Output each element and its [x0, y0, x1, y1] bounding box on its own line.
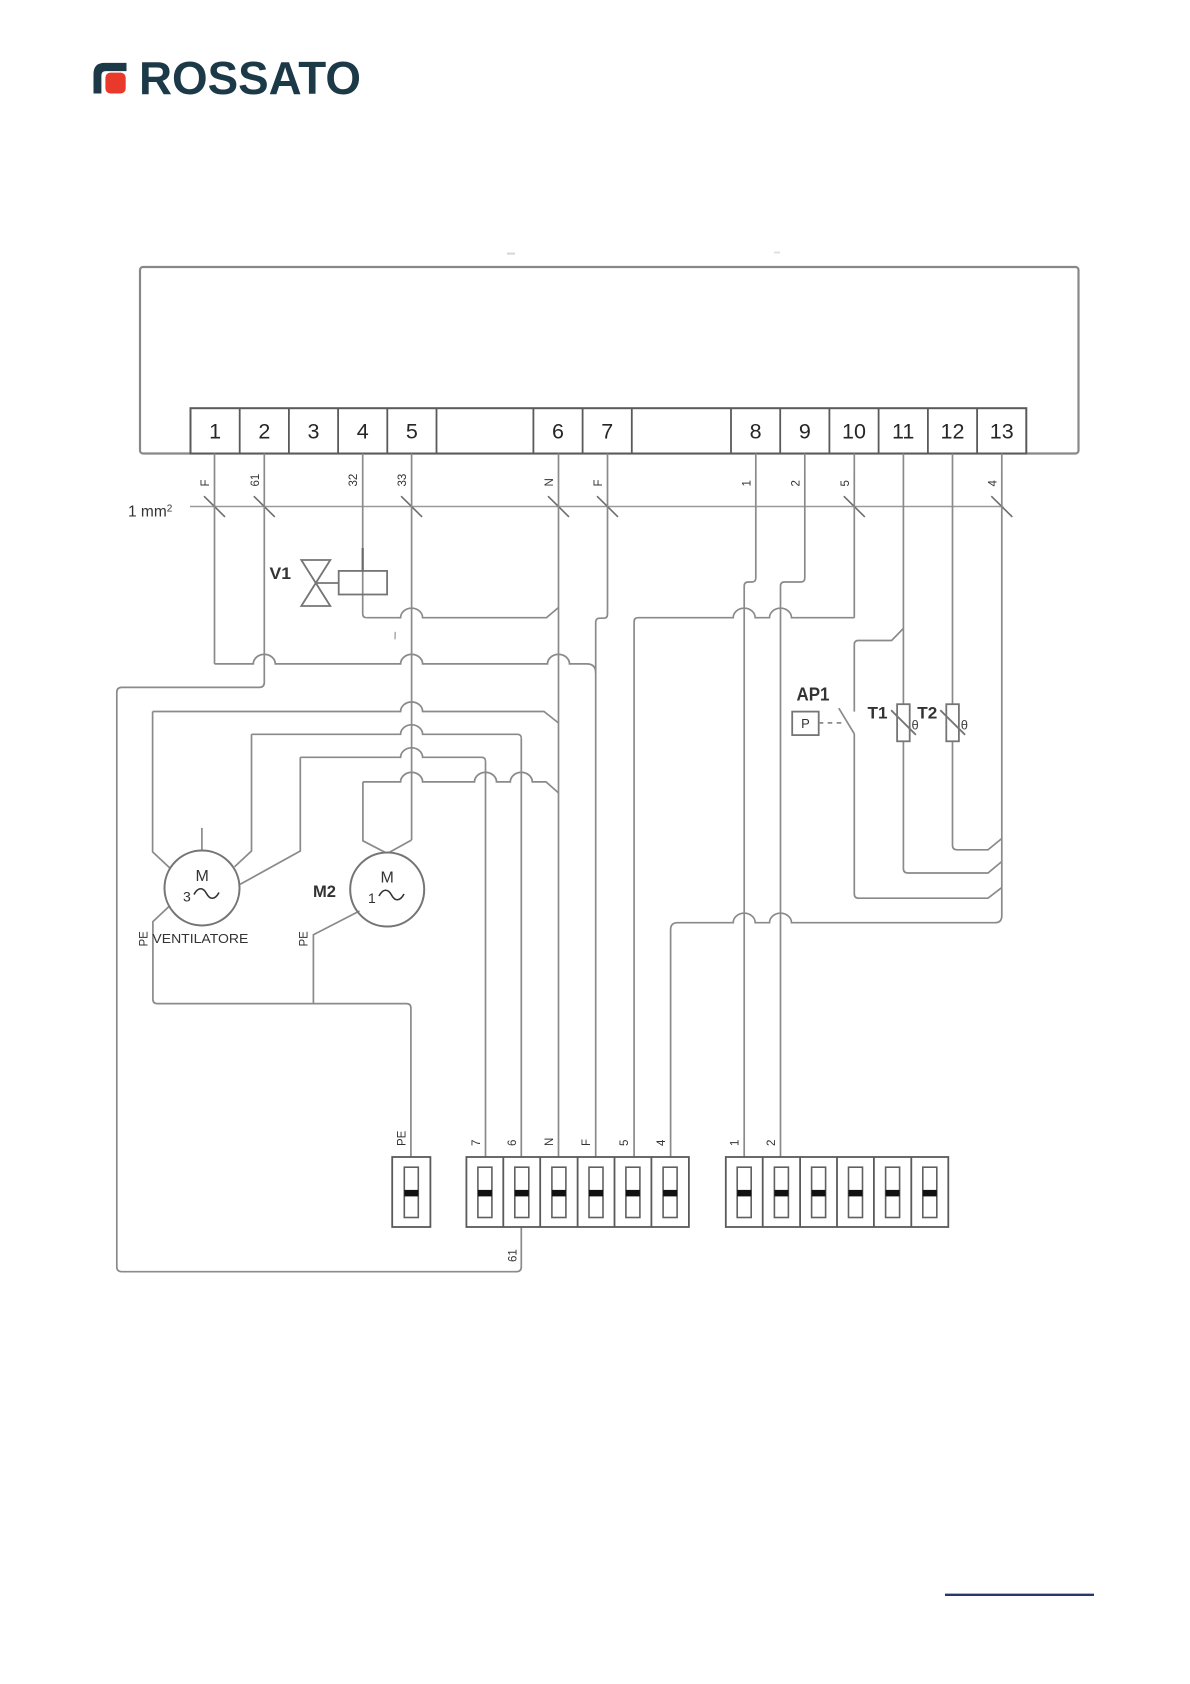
svg-text:3: 3 [308, 420, 320, 444]
svg-text:AP1: AP1 [797, 684, 830, 705]
svg-text:2: 2 [766, 1140, 778, 1146]
svg-text:8: 8 [750, 420, 762, 444]
svg-text:PE: PE [139, 931, 151, 947]
svg-text:F: F [200, 479, 212, 486]
svg-text:5: 5 [840, 480, 852, 486]
svg-text:1: 1 [368, 890, 376, 906]
svg-text:F: F [593, 479, 605, 486]
svg-text:4: 4 [357, 420, 369, 444]
svg-text:ROSSATO: ROSSATO [139, 52, 361, 104]
svg-text:9: 9 [799, 420, 811, 444]
svg-text:5: 5 [619, 1140, 631, 1146]
svg-text:11: 11 [892, 420, 914, 444]
svg-text:M: M [381, 870, 394, 887]
svg-text:PE: PE [396, 1130, 408, 1146]
svg-text:M: M [196, 868, 209, 885]
svg-text:7: 7 [601, 420, 613, 444]
svg-text:12: 12 [941, 420, 965, 444]
svg-text:T2: T2 [917, 705, 937, 723]
svg-text:3: 3 [183, 889, 191, 905]
svg-text:61: 61 [508, 1249, 520, 1262]
svg-text:M2: M2 [313, 883, 336, 901]
svg-text:32: 32 [348, 474, 360, 487]
svg-text:P: P [801, 716, 810, 731]
svg-text:θ: θ [961, 718, 968, 733]
svg-text:6: 6 [507, 1140, 519, 1146]
svg-text:10: 10 [842, 420, 866, 444]
svg-text:4: 4 [987, 480, 999, 487]
svg-text:V1: V1 [270, 565, 292, 583]
svg-text:1 mm2: 1 mm2 [128, 504, 173, 521]
svg-text:2: 2 [790, 480, 802, 486]
svg-text:T1: T1 [868, 705, 888, 723]
svg-text:33: 33 [397, 474, 409, 487]
svg-text:1: 1 [741, 480, 753, 486]
svg-text:6: 6 [552, 420, 564, 444]
svg-text:5: 5 [406, 420, 418, 444]
svg-text:13: 13 [990, 420, 1014, 444]
svg-text:2: 2 [258, 420, 270, 444]
svg-text:61: 61 [250, 474, 262, 487]
svg-text:F: F [581, 1139, 593, 1146]
svg-text:N: N [544, 478, 556, 486]
svg-text:7: 7 [471, 1140, 483, 1146]
svg-text:N: N [544, 1138, 556, 1146]
svg-text:VENTILATORE: VENTILATORE [152, 931, 248, 946]
svg-text:4: 4 [656, 1139, 668, 1146]
svg-text:θ: θ [912, 718, 919, 733]
svg-text:1: 1 [209, 420, 221, 444]
svg-text:1: 1 [730, 1140, 742, 1146]
svg-text:PE: PE [299, 931, 311, 947]
